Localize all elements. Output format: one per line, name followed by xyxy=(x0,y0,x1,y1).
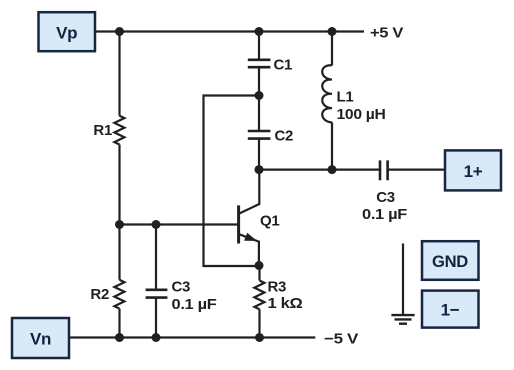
svg-text:1+: 1+ xyxy=(464,162,483,181)
svg-text:GND: GND xyxy=(432,252,468,271)
svg-text:R3: R3 xyxy=(268,278,287,295)
svg-text:C2: C2 xyxy=(275,127,294,144)
svg-text:Vp: Vp xyxy=(56,24,77,43)
svg-text:Q1: Q1 xyxy=(260,212,279,229)
svg-text:R1: R1 xyxy=(93,122,112,139)
svg-text:C3: C3 xyxy=(172,278,191,295)
svg-text:1−: 1− xyxy=(441,301,460,320)
svg-text:−5 V: −5 V xyxy=(324,330,358,347)
svg-text:+5 V: +5 V xyxy=(370,24,403,41)
svg-text:C3: C3 xyxy=(376,189,395,206)
svg-text:100 µH: 100 µH xyxy=(337,106,386,123)
svg-text:L1: L1 xyxy=(337,88,354,105)
svg-text:0.1 µF: 0.1 µF xyxy=(362,206,407,223)
svg-text:0.1 µF: 0.1 µF xyxy=(172,296,217,313)
svg-text:C1: C1 xyxy=(274,56,293,73)
svg-text:R2: R2 xyxy=(90,286,109,303)
svg-text:1 kΩ: 1 kΩ xyxy=(268,295,303,312)
svg-text:Vn: Vn xyxy=(30,330,51,349)
